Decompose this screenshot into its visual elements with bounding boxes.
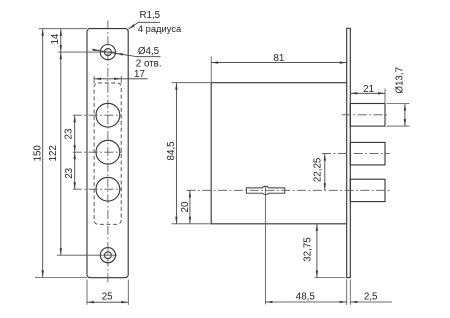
svg-text:23: 23 bbox=[64, 167, 75, 178]
ext line 84,5 / 20 bottom bbox=[172, 223, 212, 225]
dim 21 bbox=[350, 92, 385, 94]
svg-text:25: 25 bbox=[102, 291, 113, 302]
svg-text:23: 23 bbox=[64, 128, 75, 139]
key vertical axis bbox=[264, 186, 266, 304]
svg-text:Ø13,7: Ø13,7 bbox=[394, 67, 405, 94]
dim 150 bbox=[42, 29, 44, 278]
lock body (side view) bbox=[211, 83, 347, 224]
ext line 25 right bbox=[127, 280, 129, 305]
leader O4,5 line through hole bbox=[100, 51, 116, 54]
svg-text:32,75: 32,75 bbox=[302, 237, 313, 262]
dim O13,7 bbox=[404, 104, 406, 127]
centerline top hole / ext line 14,122 bbox=[58, 51, 117, 53]
centerline bolt 3 / key axis bbox=[187, 189, 390, 191]
leader O4,5 arrow left bbox=[92, 50, 100, 51]
ext line top edge bbox=[39, 28, 87, 30]
svg-text:20: 20 bbox=[180, 201, 191, 212]
bottom screw hole outer bbox=[100, 248, 115, 263]
dim 2,5 tail bbox=[350, 301, 392, 303]
centerline bolt 1 bbox=[342, 114, 390, 116]
bolt 1 bbox=[350, 104, 385, 127]
centerline bolt hole 1 bbox=[73, 114, 122, 116]
dim 23 upper bbox=[74, 115, 76, 152]
centerline bolt hole 3 bbox=[73, 188, 122, 190]
svg-text:48,5: 48,5 bbox=[296, 291, 316, 302]
bolt 2 bbox=[350, 142, 385, 165]
centerline bolt 2 bbox=[322, 153, 390, 155]
svg-text:4 радиуса: 4 радиуса bbox=[138, 23, 182, 34]
bolt hole 2 bbox=[96, 140, 120, 164]
svg-text:22,25: 22,25 bbox=[312, 157, 323, 182]
ext line O13,7 top bbox=[387, 103, 410, 105]
ext line O13,7 bottom bbox=[387, 125, 410, 127]
dim 122 bbox=[60, 52, 62, 255]
faceplate outline (front view) bbox=[87, 29, 128, 278]
dim 17 tail bbox=[121, 78, 147, 80]
dim 23 lower bbox=[74, 152, 76, 189]
ext line 48,5 / 2,5 bar left bbox=[346, 280, 348, 305]
hidden pocket outline (dashed) bbox=[94, 83, 121, 224]
dim 17 bbox=[94, 78, 121, 80]
dim 32,75 bbox=[316, 224, 318, 278]
dim 81 bbox=[211, 62, 347, 64]
ext line 17 left bbox=[93, 76, 95, 84]
dim 84,5 bbox=[175, 83, 177, 224]
dim 22,25 bbox=[324, 154, 326, 191]
centerline bolt hole 2 bbox=[73, 151, 122, 153]
bottom screw hole inner bbox=[105, 252, 112, 259]
ext line 21 right bbox=[384, 89, 386, 104]
leader R1,5 bbox=[128, 22, 160, 29]
svg-text:14: 14 bbox=[50, 33, 61, 44]
leader O4,5 arrow right bbox=[116, 53, 137, 56]
keyhole slot bbox=[246, 186, 284, 194]
svg-text:21: 21 bbox=[363, 84, 374, 95]
centerline bottom hole / ext line 122 bbox=[57, 254, 117, 256]
top screw hole inner bbox=[104, 49, 111, 56]
bolt hole 3 bbox=[96, 177, 120, 201]
svg-text:84,5: 84,5 bbox=[166, 141, 177, 161]
svg-text:R1,5: R1,5 bbox=[139, 10, 160, 21]
svg-text:122: 122 bbox=[48, 145, 59, 161]
dim 20 bbox=[189, 190, 191, 224]
ext line 25 left bbox=[86, 280, 88, 305]
ext line 81 left bbox=[210, 56, 212, 82]
svg-text:81: 81 bbox=[273, 53, 284, 64]
leader O4,5 shelf bbox=[137, 56, 161, 58]
bolt hole 1 bbox=[96, 103, 120, 127]
svg-text:2 отв.: 2 отв. bbox=[136, 59, 162, 70]
ext line 2,5 bar right bbox=[349, 280, 351, 305]
vertical centerline front view bbox=[107, 21, 109, 285]
ext line 32,75 bottom bbox=[315, 277, 346, 279]
svg-text:2,5: 2,5 bbox=[364, 291, 378, 302]
svg-text:17: 17 bbox=[134, 69, 145, 80]
bolt 3 bbox=[350, 179, 385, 201]
ext line 84,5 top bbox=[172, 82, 212, 84]
svg-text:Ø4,5: Ø4,5 bbox=[138, 46, 160, 57]
dim 48,5 bbox=[265, 301, 346, 303]
ext line bottom edge bbox=[35, 277, 87, 279]
ext line 17 right bbox=[120, 76, 122, 84]
dim 14 bbox=[60, 29, 62, 52]
dim 25 bbox=[87, 301, 128, 303]
faceplate bar (side view) bbox=[347, 28, 351, 277]
svg-text:150: 150 bbox=[32, 145, 43, 162]
top screw hole outer bbox=[100, 45, 115, 60]
